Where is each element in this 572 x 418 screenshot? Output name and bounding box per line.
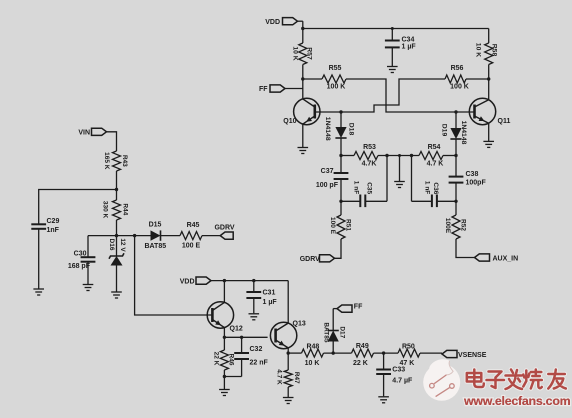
wire VIN to R43 — [107, 132, 117, 151]
port AUX_IN — [475, 254, 519, 262]
resistor R53 — [354, 144, 378, 167]
resistor R54 — [419, 144, 443, 167]
wire R56 to Q10 base — [315, 79, 445, 114]
capacitor C35 — [339, 156, 387, 208]
svg-text:330 K: 330 K — [101, 201, 108, 219]
resistor R43 — [103, 151, 128, 171]
svg-text:BAT85: BAT85 — [144, 243, 166, 250]
watermark elecfans logo circle — [423, 359, 460, 401]
ground C33 — [378, 397, 389, 403]
svg-text:R43: R43 — [121, 155, 128, 167]
wire Q12 emitter to node — [223, 328, 268, 339]
resistor R50 — [398, 343, 442, 367]
capacitor C32 — [224, 337, 268, 376]
svg-text:R58: R58 — [491, 44, 498, 57]
resistor R48 — [288, 343, 351, 367]
node coupling rail — [339, 154, 457, 157]
wire R56 to R58 node — [466, 77, 490, 80]
svg-text:4.7 K: 4.7 K — [427, 160, 444, 167]
svg-text:47 K: 47 K — [400, 360, 415, 367]
wire FF stub — [285, 88, 303, 90]
svg-text:1 µF: 1 µF — [263, 299, 278, 306]
ground Q10 — [298, 148, 309, 154]
svg-text:168 pF: 168 pF — [68, 263, 91, 270]
resistor R56 — [445, 65, 469, 91]
svg-text:22 K: 22 K — [213, 352, 220, 366]
svg-text:C35: C35 — [366, 182, 373, 194]
diode D15 BAT85 — [144, 222, 180, 250]
port FF (bottom) — [337, 303, 363, 312]
wire Q13 emitter to node — [287, 348, 290, 355]
diode D19 1N4148 — [440, 112, 467, 156]
ground D16 — [111, 292, 122, 298]
zener diode D16 12V — [108, 236, 126, 292]
transistor Q10 — [283, 98, 320, 125]
svg-text:C38: C38 — [466, 171, 479, 178]
svg-text:R56: R56 — [451, 65, 464, 72]
svg-text:100 E: 100 E — [329, 217, 336, 235]
port GDRV (top out) — [214, 224, 234, 239]
svg-text:100 K: 100 K — [327, 84, 346, 91]
svg-text:C31: C31 — [263, 289, 276, 296]
svg-text:1 nF: 1 nF — [353, 181, 360, 194]
resistor R45 — [180, 222, 220, 249]
node VDD bottom rail — [211, 279, 288, 282]
svg-text:R44: R44 — [122, 203, 129, 215]
resistor R51 — [329, 201, 352, 239]
svg-text:Q12: Q12 — [230, 326, 243, 333]
diode D17 BAT85 — [323, 309, 346, 354]
svg-text:Q11: Q11 — [498, 118, 511, 125]
ground C30 — [83, 285, 94, 291]
svg-text:C34: C34 — [402, 36, 415, 43]
ground C31 — [249, 314, 260, 320]
port VIN — [78, 128, 106, 136]
capacitor C38 — [449, 156, 487, 202]
ground Q11 — [483, 141, 494, 147]
diode D18 1N4148 — [324, 112, 355, 156]
wire D15 node to Q12 base — [135, 236, 213, 315]
resistor R57 — [292, 43, 313, 64]
wire Q11 emitter to ground — [488, 123, 490, 141]
svg-text:R51: R51 — [345, 219, 352, 231]
svg-text:R57: R57 — [306, 47, 313, 60]
svg-text:D18: D18 — [347, 123, 354, 136]
svg-text:FF: FF — [354, 303, 363, 310]
svg-text:R47: R47 — [293, 372, 300, 384]
port FF (left) — [259, 85, 285, 93]
capacitor C33 — [376, 353, 413, 396]
svg-text:10 K: 10 K — [292, 46, 299, 60]
wire R43 to R44 with tap — [115, 171, 118, 200]
svg-text:R54: R54 — [428, 144, 441, 151]
transistor Q11 — [469, 98, 510, 125]
svg-text:100pF: 100pF — [466, 180, 487, 187]
wire down to C30 — [87, 236, 89, 257]
svg-text:1nF: 1nF — [47, 227, 60, 234]
svg-text:100E: 100E — [444, 218, 451, 234]
svg-text:C29: C29 — [47, 218, 60, 225]
svg-text:165 K: 165 K — [103, 152, 110, 170]
port GDRV (bottom left out) — [300, 255, 335, 263]
svg-text:R45: R45 — [187, 222, 200, 229]
capacitor C29 — [31, 218, 59, 288]
svg-text:R48: R48 — [306, 343, 319, 350]
svg-text:D16: D16 — [108, 239, 115, 251]
svg-text:D15: D15 — [149, 222, 162, 229]
svg-text:100 K: 100 K — [450, 84, 469, 91]
svg-text:R46: R46 — [227, 354, 234, 366]
capacitor C30 — [68, 250, 96, 284]
svg-text:D19: D19 — [440, 124, 447, 137]
svg-text:D17: D17 — [339, 326, 346, 338]
capacitor C31 — [246, 281, 277, 314]
resistor R47 — [275, 353, 300, 397]
svg-text:4.7 µF: 4.7 µF — [392, 377, 413, 384]
watermark chinese text dian zi fa shao you — [467, 370, 566, 390]
svg-text:10 K: 10 K — [305, 360, 320, 367]
svg-text:1N4148: 1N4148 — [324, 117, 331, 141]
ground mid rail — [394, 182, 405, 188]
resistor R44 — [101, 200, 128, 220]
svg-text:C36: C36 — [432, 182, 439, 194]
svg-text:VSENSE: VSENSE — [458, 352, 487, 359]
svg-text:VIN: VIN — [78, 129, 90, 136]
port VDD (top) — [265, 18, 297, 26]
wire tap to C29 — [39, 190, 117, 225]
svg-text:GDRV: GDRV — [214, 224, 234, 231]
port VDD (bottom) — [180, 277, 211, 285]
capacitor C36 — [412, 156, 458, 208]
wire R52 to AUX_IN port — [456, 239, 475, 258]
svg-text:R55: R55 — [329, 65, 342, 72]
svg-text:1 nF: 1 nF — [424, 181, 431, 194]
svg-text:www.elecfans.com: www.elecfans.com — [463, 394, 571, 408]
wire R57 to Q10 collector — [301, 65, 304, 99]
ground C29 — [33, 289, 44, 295]
resistor R55 — [303, 65, 346, 91]
wire Q12 collector — [223, 281, 225, 303]
transistor Q13 — [270, 321, 305, 349]
svg-text:R53: R53 — [363, 144, 376, 151]
svg-text:VDD: VDD — [265, 19, 280, 26]
svg-text:10 K: 10 K — [475, 43, 482, 57]
wire VDD port to R57 — [298, 21, 303, 43]
svg-text:1 µF: 1 µF — [402, 43, 417, 50]
capacitor C37 — [316, 156, 349, 202]
svg-text:VDD: VDD — [180, 278, 195, 285]
node D15 anode rail — [88, 234, 151, 237]
svg-text:4.7K: 4.7K — [362, 160, 377, 167]
resistor R49 — [352, 343, 399, 367]
ground R47 — [283, 398, 294, 404]
svg-text:BAT85: BAT85 — [323, 322, 330, 342]
svg-text:1N4148: 1N4148 — [460, 121, 467, 145]
transistor Q12 — [207, 302, 243, 333]
svg-text:C32: C32 — [250, 346, 263, 353]
capacitor C34 — [385, 29, 416, 67]
svg-text:FF: FF — [259, 86, 268, 93]
ground C34 — [387, 67, 398, 73]
resistor R58 — [475, 29, 498, 100]
svg-text:Q13: Q13 — [293, 321, 306, 328]
wire R44 to D15 node — [115, 220, 118, 237]
svg-text:C33: C33 — [392, 367, 405, 374]
wire Q10 emitter to ground — [302, 124, 304, 147]
svg-text:100 pF: 100 pF — [316, 182, 339, 189]
svg-text:4.7 K: 4.7 K — [275, 369, 282, 385]
svg-text:R49: R49 — [356, 343, 369, 350]
svg-text:22 nF: 22 nF — [250, 359, 269, 366]
svg-text:12 V: 12 V — [119, 238, 126, 252]
svg-text:C37: C37 — [321, 168, 334, 175]
resistor R52 — [444, 201, 467, 239]
port VSENSE — [442, 350, 487, 359]
ground R46 — [219, 390, 230, 396]
svg-text:R50: R50 — [402, 343, 415, 350]
wire mid ground stem — [399, 156, 401, 182]
svg-text:AUX_IN: AUX_IN — [493, 255, 519, 262]
wire rail to Q13 collector — [287, 281, 289, 324]
wire R51 to GDRV port — [335, 239, 342, 258]
resistor R46 — [213, 337, 235, 389]
svg-text:Q10: Q10 — [283, 118, 296, 125]
wire R55 to Q11 base — [346, 79, 475, 114]
node VDD rail top — [301, 27, 489, 30]
svg-text:22 K: 22 K — [353, 360, 368, 367]
svg-text:C30: C30 — [74, 250, 87, 257]
svg-text:100 E: 100 E — [182, 242, 201, 249]
svg-text:GDRV: GDRV — [300, 256, 320, 263]
svg-text:R52: R52 — [460, 219, 467, 231]
